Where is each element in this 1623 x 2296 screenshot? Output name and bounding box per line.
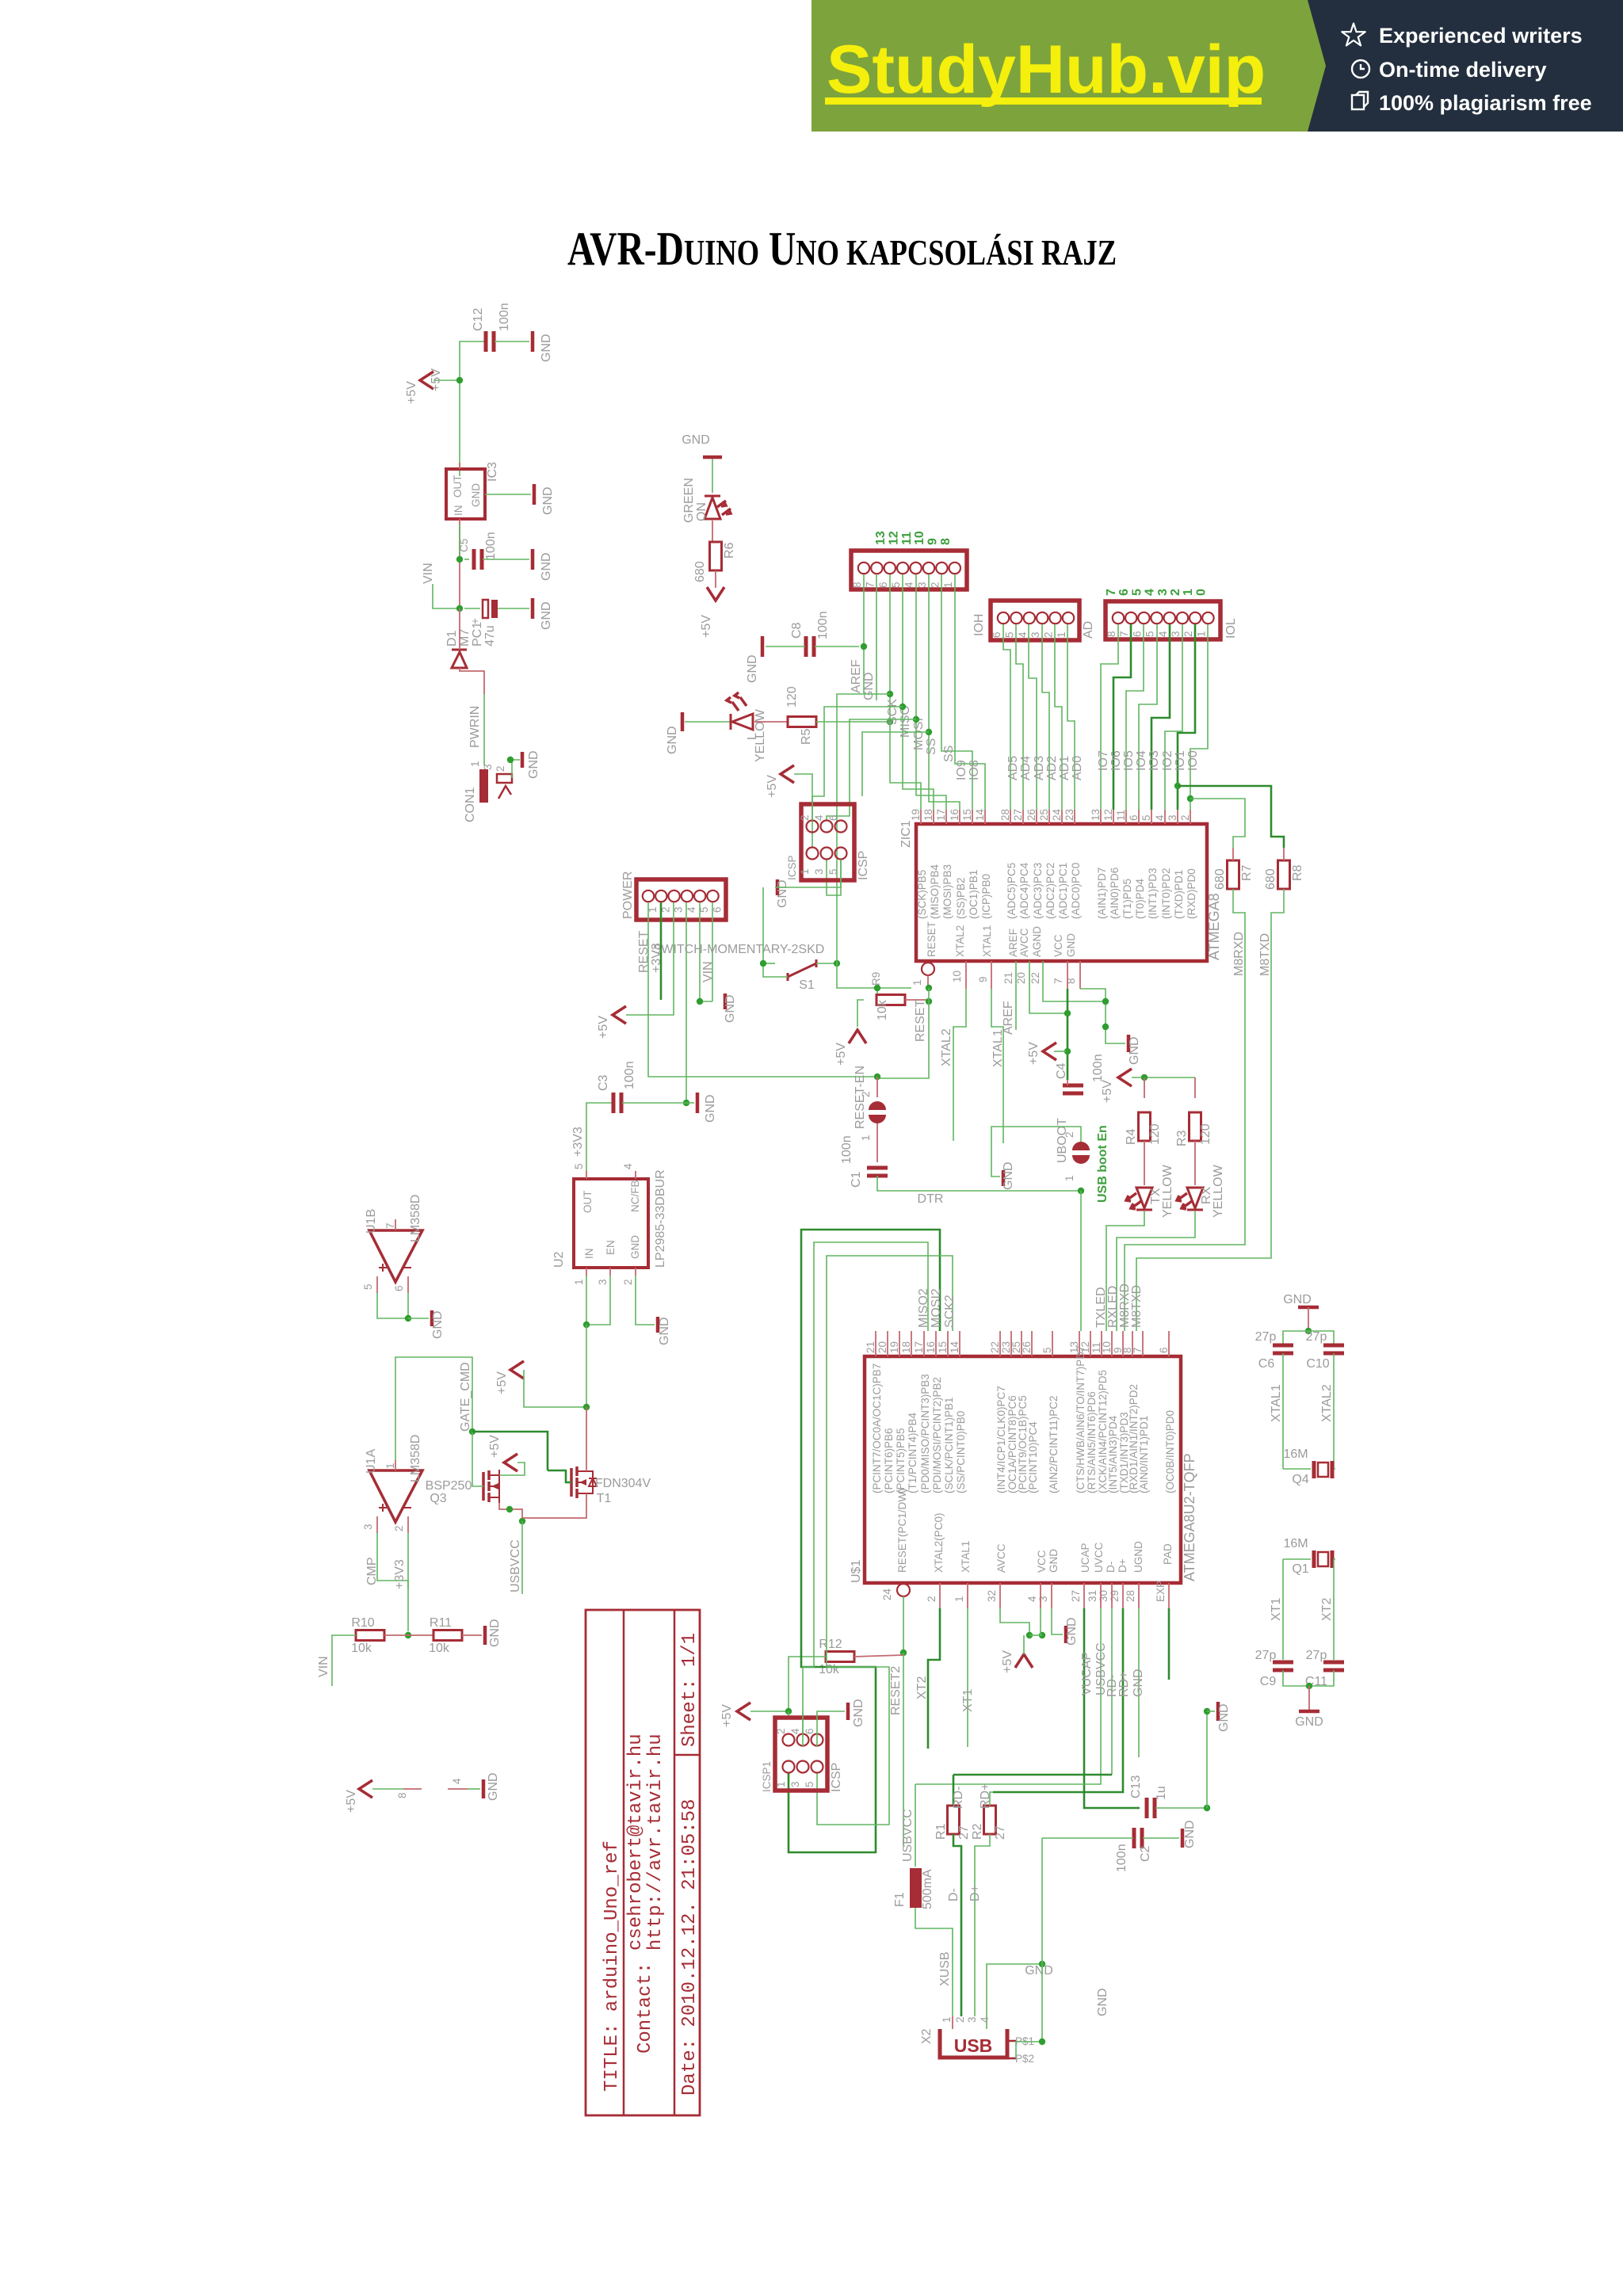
pin stub IC3 GND (485, 494, 531, 495)
power +5V arrow at ICSP1 (737, 1703, 750, 1720)
svg-text:(ADC5)PC5: (ADC5)PC5 (1006, 863, 1018, 919)
junction S1 left (760, 960, 766, 967)
svg-text:C4: C4 (1055, 1062, 1068, 1079)
wire pin4 pin3 to GND (1041, 1608, 1042, 1635)
svg-text:17: 17 (935, 809, 947, 821)
svg-text:GND: GND (540, 601, 553, 630)
svg-text:C2: C2 (1139, 1845, 1152, 1862)
power +5V arrow near R3 R4 (1118, 1069, 1132, 1086)
svg-text:(ADC4)PC4: (ADC4)PC4 (1018, 862, 1030, 919)
svg-text:F1: F1 (893, 1892, 907, 1907)
wire S1 to ICSP gnd net (763, 887, 788, 977)
svg-text:IO9: IO9 (955, 760, 968, 780)
svg-text:R4: R4 (1125, 1128, 1138, 1145)
wire VCC from ZIC1 pin7 to C4 (1067, 961, 1068, 989)
resistor R9 10k (876, 995, 905, 1005)
ground GND at C12 (531, 331, 535, 352)
svg-text:19: 19 (888, 1341, 900, 1353)
ground GND at US1 pin3 (1064, 1626, 1068, 1643)
svg-text:IO7: IO7 (1097, 750, 1110, 771)
svg-text:8: 8 (1106, 631, 1117, 637)
svg-text:ICSP1: ICSP1 (761, 1761, 773, 1792)
svg-text:+5V: +5V (405, 381, 418, 404)
svg-text:ICSP: ICSP (857, 851, 870, 880)
svg-text:500mA: 500mA (921, 1869, 934, 1909)
wire IO5 from IOL to ZIC1 (1126, 624, 1144, 810)
svg-text:GND: GND (541, 486, 555, 515)
svg-text:D1: D1 (445, 630, 459, 646)
svg-text:GND: GND (776, 879, 789, 908)
svg-text:GND: GND (1132, 1669, 1145, 1697)
svg-text:UCAP: UCAP (1079, 1543, 1091, 1573)
junction C5 (456, 556, 463, 563)
wire R1 to USB pin2 D- (953, 1834, 961, 2016)
header IOH box (851, 551, 967, 589)
wire IO4 from IOL to ZIC1 (1139, 624, 1157, 810)
svg-text:1: 1 (469, 761, 481, 767)
wire IO0 to R7 (1190, 799, 1245, 848)
ground GND at U1B (430, 1310, 434, 1326)
svg-text:(PCINT7/OC0A/OC1C)PB7: (PCINT7/OC0A/OC1C)PB7 (871, 1363, 883, 1493)
svg-text:U1A: U1A (365, 1449, 378, 1474)
wire crystal top loop (1283, 1331, 1334, 1346)
svg-text:5: 5 (804, 1781, 815, 1787)
svg-text:5: 5 (1041, 1347, 1053, 1353)
wire POWER pin4 GND (685, 902, 687, 1103)
ground GND at ICSP1 (846, 1703, 850, 1720)
wire MOSI from IOH pin4 to ZIC1 pin17 (916, 574, 946, 810)
svg-text:Sheet: 1/1: Sheet: 1/1 (679, 1633, 701, 1747)
junction IO1 to R8 (1174, 783, 1181, 789)
title block divider 1 (623, 1610, 625, 2115)
wire IO0 from IOL to ZIC1 (1190, 624, 1208, 810)
svg-text:ATMEGA8U2-TQFP: ATMEGA8U2-TQFP (1182, 1453, 1197, 1581)
wire U2 IN down to +5V rail node (586, 1325, 587, 1407)
svg-text:1: 1 (941, 2016, 953, 2023)
svg-text:10: 10 (913, 531, 926, 545)
svg-text:LM358D: LM358D (409, 1195, 422, 1242)
wire T1 source to USBVCC node (522, 1493, 586, 1518)
svg-text:2: 2 (1043, 631, 1055, 638)
wire U1A pins 3 2 (377, 1516, 408, 1533)
svg-text:C10: C10 (1306, 1357, 1329, 1371)
svg-text:28: 28 (999, 809, 1011, 821)
svg-text:26: 26 (1021, 1341, 1033, 1353)
svg-text:1: 1 (911, 979, 923, 986)
svg-text:1: 1 (1195, 631, 1207, 637)
IC ZIC1 top pin stubs (921, 810, 1190, 824)
svg-text:GND: GND (1183, 1820, 1197, 1848)
wire AD3 (1029, 624, 1037, 810)
ground GND at PC1 (531, 598, 535, 619)
svg-text:AD3: AD3 (1033, 756, 1046, 780)
ground GND at C3 (696, 1093, 700, 1113)
svg-text:IO0: IO0 (1186, 750, 1200, 771)
svg-text:7: 7 (1105, 589, 1118, 596)
svg-text:R1: R1 (934, 1823, 948, 1840)
svg-text:22: 22 (989, 1341, 1001, 1353)
wire ICSP pin6 to GND via switch net (775, 860, 841, 887)
junction C8 AREF (861, 643, 867, 650)
svg-text:10k: 10k (351, 1642, 372, 1655)
svg-text:5: 5 (1003, 631, 1015, 638)
ground GND at POWER header (724, 994, 727, 1009)
svg-text:100n: 100n (1115, 1844, 1128, 1872)
svg-text:R12: R12 (819, 1638, 842, 1651)
wire ICSP1 pin6 to GND (817, 1711, 845, 1746)
svg-text:(RTS/AIN5/INT6)PD6: (RTS/AIN5/INT6)PD6 (1086, 1391, 1098, 1493)
solder jumper UBOOT (1072, 1142, 1090, 1164)
svg-text:EXP: EXP (1155, 1581, 1167, 1602)
wire XT2 from US1 pin2 (928, 1608, 940, 1749)
junction +5V rail (456, 377, 463, 383)
svg-text:(SS/PCINT0)PB0: (SS/PCINT0)PB0 (955, 1411, 967, 1493)
svg-text:GND: GND (540, 334, 553, 362)
svg-text:GND: GND (1295, 1715, 1323, 1729)
svg-text:2: 2 (860, 1091, 872, 1097)
svg-text:R3: R3 (1175, 1130, 1189, 1146)
svg-text:UVCC: UVCC (1093, 1542, 1105, 1573)
junction DTR UBOOT (1078, 1188, 1084, 1194)
body diode T1 (586, 1471, 597, 1493)
svg-text:GND: GND (862, 672, 876, 700)
svg-text:7: 7 (1052, 978, 1064, 984)
svg-text:1: 1 (775, 1781, 787, 1787)
svg-text:27p: 27p (1255, 1330, 1277, 1344)
svg-text:GND: GND (1128, 1036, 1141, 1065)
svg-text:RD+: RD+ (979, 1783, 992, 1809)
wire U1B pins 5 6 (377, 1276, 408, 1293)
header ICSP pins (807, 821, 819, 833)
svg-text:16M: 16M (1283, 1447, 1308, 1461)
svg-text:BSP250: BSP250 (426, 1479, 472, 1493)
svg-text:ON: ON (695, 502, 708, 521)
svg-text:7: 7 (384, 1222, 396, 1229)
ground GND below crystal Q1 (1299, 1710, 1319, 1714)
page title AVR-Duino Uno kapcsolasi rajz (567, 223, 1117, 276)
svg-text:27p: 27p (1255, 1649, 1277, 1662)
header ICSP1 pins (783, 1734, 795, 1746)
capacitor C10 27p (1323, 1345, 1344, 1353)
svg-text:USB boot En: USB boot En (1096, 1125, 1109, 1203)
wire Q3 drain to USBVCC (499, 1503, 522, 1521)
wire MISO2 loop ICSP1 pin1 to US1 pin17 (789, 1230, 940, 1852)
svg-text:6: 6 (827, 814, 839, 821)
wire R10 to junction (384, 1634, 433, 1636)
svg-text:1: 1 (384, 1463, 396, 1469)
svg-text:(INT5/AIN3)PD4: (INT5/AIN3)PD4 (1107, 1415, 1119, 1493)
wire IO2 from IOL to ZIC1 (1165, 624, 1182, 810)
power +5V arrow at ICSP pin2 (781, 765, 794, 783)
svg-text:8: 8 (396, 1792, 408, 1798)
svg-text:XT1: XT1 (1270, 1598, 1283, 1621)
wire U1B feedback to GND (377, 1293, 408, 1318)
capacitor C6 27p (1273, 1345, 1293, 1353)
wire U1A output GATE_CMD (395, 1460, 396, 1470)
wire GND from IOH pin7 (876, 574, 877, 700)
wire CMP from U1A pin3 (377, 1533, 408, 1631)
wire AREF from IOH pin8 (863, 574, 865, 693)
svg-text:GND: GND (682, 433, 710, 447)
LED green ON (705, 496, 720, 519)
wire XT1 from US1 pin1 (967, 1608, 968, 1747)
header AD pins (998, 612, 1009, 624)
svg-text:4: 4 (451, 1778, 463, 1784)
wire LED to R6 (712, 521, 713, 543)
svg-text:MOSI2: MOSI2 (930, 1288, 943, 1328)
svg-text:XT2: XT2 (1320, 1598, 1334, 1621)
wire +5V to ICSP pin2 (794, 774, 812, 821)
svg-text:27p: 27p (1306, 1649, 1327, 1662)
wire M8TXD from R8 (1136, 889, 1284, 1331)
svg-text:AREF: AREF (850, 659, 863, 693)
svg-text:R10: R10 (351, 1616, 374, 1630)
svg-text:120: 120 (1199, 1123, 1212, 1145)
svg-text:6: 6 (393, 1285, 405, 1291)
voltage regulator IC3 (446, 469, 485, 519)
svg-text:MISO: MISO (899, 705, 912, 738)
svg-text:AD1: AD1 (1058, 756, 1071, 780)
wire RD+ net to R2 (990, 1792, 993, 1806)
wire XT1 vertical (1282, 1559, 1284, 1660)
pin stub IC3 OUT (459, 463, 460, 469)
svg-text:680: 680 (693, 561, 707, 582)
svg-text:C8: C8 (790, 622, 804, 639)
svg-text:(PDI/MOSI/PCINT2)PB2: (PDI/MOSI/PCINT2)PB2 (931, 1377, 943, 1493)
svg-text:4: 4 (1144, 589, 1157, 596)
svg-text:VCC: VCC (1036, 1550, 1048, 1573)
svg-text:C12: C12 (472, 308, 485, 331)
svg-text:3: 3 (813, 868, 825, 875)
resistor R11 10k (433, 1630, 462, 1641)
svg-text:27p: 27p (1306, 1330, 1327, 1344)
ground GND at U1 pin4 (482, 1779, 486, 1798)
svg-text:R6: R6 (723, 542, 736, 559)
wire C1 to DTR net (877, 1176, 1081, 1191)
svg-text:7: 7 (864, 582, 876, 588)
wire GND bus vertical (1206, 1711, 1208, 1808)
wire GND from ZIC1 pin8 (1079, 961, 1081, 989)
wire SS from IOH pin3 to ZIC1 pin16 (929, 574, 960, 810)
wire XTAL1 from ZIC1 pin9 (991, 961, 992, 989)
svg-text:8: 8 (851, 582, 863, 588)
svg-text:(PCINT10)PC4: (PCINT10)PC4 (1027, 1421, 1039, 1493)
wire R12 left to +5V junction (789, 1657, 826, 1711)
wire Q3 gate from GATE_CMD (472, 1475, 483, 1486)
IC U2 LP2985-33DBUR body (574, 1179, 648, 1268)
svg-text:RESET: RESET (637, 930, 651, 973)
junction PC1 (456, 605, 463, 612)
svg-text:(INT1)PD3: (INT1)PD3 (1147, 868, 1159, 919)
wire POWER pin6 VIN (712, 902, 713, 1001)
wire crystal bottom loop to GND (1283, 1670, 1334, 1686)
svg-text:X2: X2 (920, 2028, 934, 2044)
ground GND at C13 bus (1207, 1711, 1215, 1712)
capacitor C2 100n (1134, 1828, 1142, 1848)
svg-text:ICSP: ICSP (830, 1763, 843, 1792)
wire IO9 from IOH pin2 to ZIC1 pin15 (941, 574, 972, 810)
svg-text:IC3: IC3 (486, 462, 499, 482)
ground GND at R11 (483, 1626, 487, 1645)
svg-text:9: 9 (926, 538, 940, 545)
header ICSP box (801, 804, 854, 880)
svg-text:RESET: RESET (926, 921, 938, 957)
header AD box (991, 601, 1079, 640)
wire VIN stub (433, 584, 458, 608)
svg-text:AVCC: AVCC (995, 1543, 1007, 1573)
svg-text:AD2: AD2 (1045, 756, 1059, 780)
svg-text:YELLOW: YELLOW (754, 708, 767, 762)
wire Q3 source to +5V arrow (499, 1463, 525, 1475)
wire XT2 vertical (1333, 1559, 1335, 1660)
svg-text:+3V3: +3V3 (393, 1559, 407, 1589)
ground GND symbol right of ZIC1 (1127, 1035, 1131, 1052)
svg-text:VCC: VCC (1052, 934, 1064, 957)
svg-text:(ADC1)PC1: (ADC1)PC1 (1057, 863, 1069, 919)
wire jumper to C1 (876, 1123, 878, 1162)
svg-text:GND: GND (1283, 1293, 1312, 1306)
svg-text:IO4: IO4 (1135, 750, 1148, 771)
wire +5V to T1 drain node (524, 1370, 586, 1407)
svg-text:24: 24 (1051, 808, 1063, 821)
svg-text:16: 16 (925, 1341, 937, 1353)
svg-text:UGND: UGND (1132, 1541, 1144, 1573)
svg-text:AD5: AD5 (1006, 756, 1020, 780)
svg-text:CON1: CON1 (464, 787, 477, 822)
svg-text:2: 2 (495, 765, 506, 772)
svg-text:2: 2 (1179, 814, 1191, 821)
svg-text:IO2: IO2 (1161, 750, 1174, 771)
wire C8 to IOH pin8 wire (815, 646, 859, 647)
wire SS branch stub (926, 729, 932, 735)
svg-text:3: 3 (1170, 631, 1182, 637)
svg-text:+5V: +5V (1027, 1042, 1041, 1065)
wire U2 GND pin2 to ground (636, 1276, 655, 1325)
svg-text:XTAL2: XTAL2 (954, 925, 966, 957)
junction IO0 to R7 (1187, 795, 1193, 802)
wire U1 pin4 to GND (448, 1788, 468, 1790)
svg-text:3: 3 (597, 1279, 609, 1285)
svg-text:(ADC0)PC0: (ADC0)PC0 (1070, 863, 1082, 919)
svg-text:(T1)PD5: (T1)PD5 (1121, 879, 1133, 919)
switch S1 momentary (788, 959, 816, 981)
banner copy icon (1352, 92, 1368, 109)
svg-text:(CTS/HWB/AIN6/TO/INT7)PD7: (CTS/HWB/AIN6/TO/INT7)PD7 (1075, 1345, 1086, 1493)
wire XTAL2 from ZIC1 pin10 (965, 961, 967, 989)
svg-text:3: 3 (362, 1524, 374, 1530)
pin stubs U2 (586, 1171, 636, 1276)
wire C12 to GND (495, 341, 529, 342)
svg-text:(T1/PCINT4)PB4: (T1/PCINT4)PB4 (907, 1412, 918, 1493)
svg-text:RESET(PC1/DW): RESET(PC1/DW) (896, 1488, 908, 1573)
svg-text:EN: EN (605, 1240, 617, 1255)
svg-text:2: 2 (926, 1596, 938, 1602)
svg-text:8: 8 (939, 538, 953, 545)
svg-text:6: 6 (991, 631, 1002, 638)
svg-text:LP2985-33DBUR: LP2985-33DBUR (654, 1169, 667, 1268)
power +5V arrow below pin32 (1015, 1654, 1033, 1668)
power +5V arrow below R6 (707, 587, 724, 601)
wire +3V3 stub from U1A pin2 (407, 1533, 409, 1589)
svg-text:GND: GND (704, 1094, 717, 1123)
resistor R3 120 (1190, 1112, 1201, 1141)
svg-text:GND: GND (1217, 1703, 1231, 1732)
svg-text:AVR-DUINO UNO KAPCSOLÁSI RAJZ: AVR-DUINO UNO KAPCSOLÁSI RAJZ (567, 223, 1117, 276)
capacitor C5 (474, 549, 482, 570)
wire AGND from ZIC1 pin22 (1043, 961, 1106, 1001)
wire R12 right to RESET2 (854, 1655, 903, 1657)
svg-text:7: 7 (1118, 631, 1130, 637)
svg-text:20: 20 (1015, 972, 1027, 984)
resistor R8 680 (1278, 860, 1290, 889)
wire POWER pin1 RESET net (647, 902, 649, 1054)
svg-text:RD+: RD+ (1117, 1672, 1131, 1697)
power +5V arrow for U1 supply pin 8 (359, 1780, 372, 1798)
svg-text:12: 12 (1102, 809, 1114, 821)
ground GND at IC3 (533, 484, 537, 505)
capacitor C4 100n (1063, 1085, 1083, 1093)
junction T1 drain (583, 1404, 590, 1410)
svg-text:Q3: Q3 (430, 1492, 446, 1505)
svg-text:2: 2 (1182, 631, 1194, 637)
svg-text:IO8: IO8 (968, 760, 981, 780)
svg-text:GND: GND (852, 1699, 865, 1727)
svg-text:1: 1 (953, 1596, 965, 1602)
svg-text:18: 18 (922, 809, 934, 821)
svg-text:C13: C13 (1129, 1775, 1143, 1798)
svg-text:1u: 1u (1155, 1786, 1168, 1800)
svg-text:XT1: XT1 (961, 1689, 975, 1712)
svg-text:AD4: AD4 (1019, 756, 1033, 780)
svg-text:R8: R8 (1291, 864, 1304, 881)
svg-text:20: 20 (876, 1341, 888, 1353)
IC US1 bottom pin stubs (940, 1583, 1169, 1608)
wire GATE_CMD to Q3 gate (472, 1432, 473, 1475)
svg-text:SCK2: SCK2 (943, 1295, 957, 1328)
LED RX yellow (1194, 1141, 1196, 1185)
svg-text:4: 4 (622, 1163, 634, 1169)
op-amp U1B LM358D (369, 1230, 422, 1282)
svg-text:1: 1 (1064, 1175, 1075, 1181)
power +5V arrow below R9 (849, 1030, 866, 1043)
svg-text:XTAL2(PC0): XTAL2(PC0) (933, 1512, 945, 1573)
svg-text:GND: GND (527, 750, 540, 779)
svg-text:29: 29 (1109, 1590, 1121, 1602)
wire C13 to GND bus (1155, 1807, 1207, 1809)
svg-text:VIN: VIN (317, 1656, 330, 1677)
svg-text:XUSB: XUSB (938, 1951, 952, 1986)
svg-text:4: 4 (1154, 814, 1166, 821)
wire C3 to GND (622, 1102, 694, 1104)
wire MISO from IOH pin5 to ZIC1 pin18 (903, 574, 934, 810)
wire +5V to U1 pin8 (372, 1788, 403, 1790)
svg-text:C5: C5 (458, 539, 470, 552)
svg-text:Q4: Q4 (1292, 1473, 1308, 1486)
svg-text:1: 1 (573, 1279, 585, 1285)
svg-text:2: 2 (393, 1525, 405, 1531)
svg-text:4: 4 (813, 814, 825, 821)
title block sheet divider (674, 1754, 700, 1756)
svg-text:GND: GND (1065, 933, 1077, 957)
svg-text:LM358D: LM358D (409, 1435, 422, 1482)
header IOL box (1106, 601, 1220, 639)
svg-text:GND: GND (658, 1317, 671, 1345)
pin stub U1B out (395, 1219, 396, 1230)
svg-text:10: 10 (1101, 1341, 1113, 1353)
svg-text:GND: GND (1025, 1964, 1053, 1978)
wire PC1 branch (464, 608, 480, 609)
svg-text:+5V: +5V (700, 615, 713, 638)
